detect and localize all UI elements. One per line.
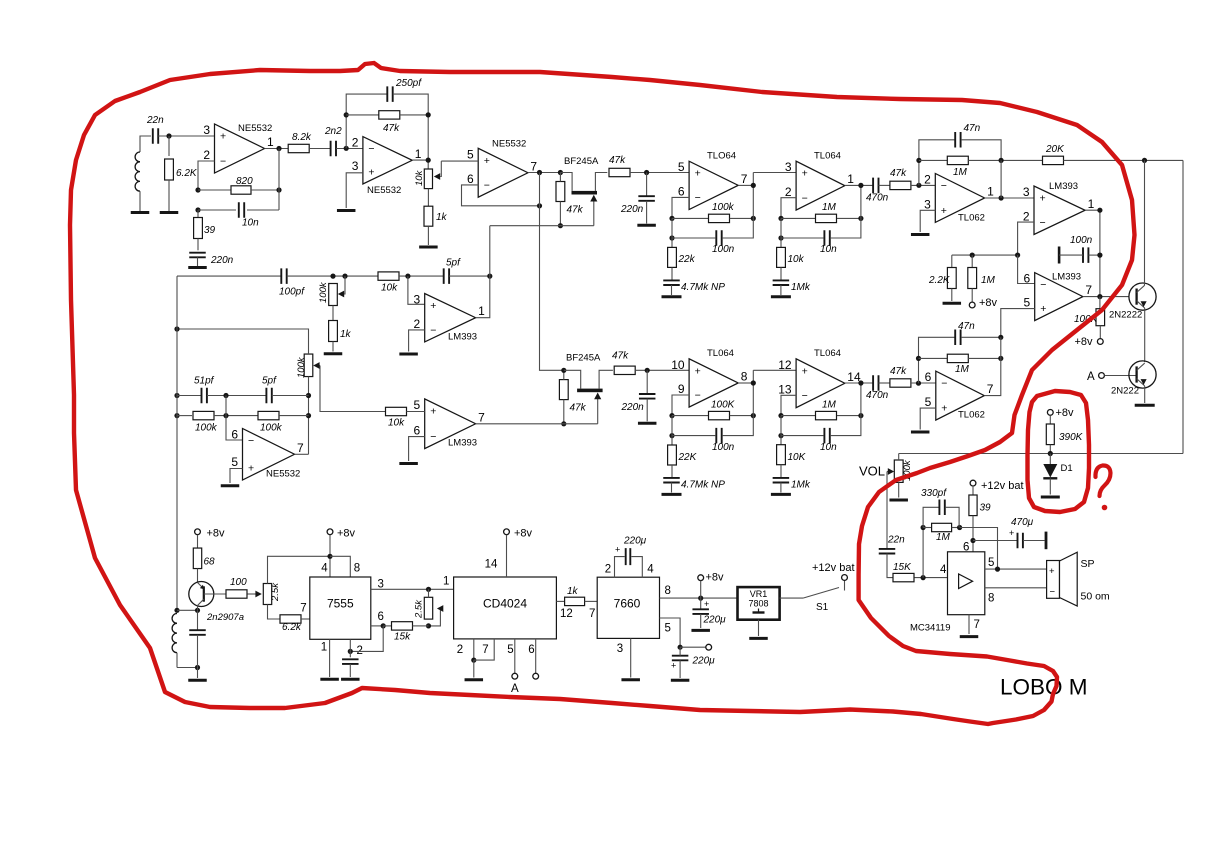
- svg-text:6: 6: [467, 172, 474, 186]
- svg-text:5pf: 5pf: [262, 376, 277, 387]
- svg-text:1M: 1M: [981, 275, 996, 286]
- junction U5 output: [858, 183, 863, 188]
- junction TL062#2 input: [916, 381, 921, 386]
- svg-text:50 om: 50 om: [1081, 591, 1110, 603]
- svg-text:1: 1: [415, 147, 422, 161]
- wire 220n to ground (bottom): [646, 399, 648, 422]
- terminal +8v (Q3): [195, 528, 225, 540]
- resistor 1M (bias): [968, 268, 996, 289]
- ground (D1): [1041, 496, 1060, 499]
- svg-text:−: −: [941, 378, 947, 390]
- wire pot2 wiper down: [320, 366, 386, 412]
- capacitor 1Mk: [773, 280, 811, 293]
- junction 51pf left: [174, 393, 179, 398]
- svg-text:LM393: LM393: [448, 332, 477, 343]
- wire U4 output: [738, 184, 753, 186]
- wire 100pf to 10k: [287, 275, 378, 277]
- svg-text:7: 7: [741, 172, 748, 186]
- svg-text:15k: 15k: [394, 632, 411, 643]
- junction pot1 wiper tap: [342, 274, 347, 279]
- svg-text:−: −: [248, 435, 254, 447]
- svg-text:−: −: [368, 143, 374, 155]
- svg-text:TL064: TL064: [814, 348, 841, 359]
- svg-text:6: 6: [231, 428, 238, 442]
- svg-text:MC34119: MC34119: [910, 623, 951, 634]
- junction U9 100n left: [669, 433, 674, 438]
- inductor TX coil L2: [172, 614, 177, 668]
- wire U11 pin5 to ground: [920, 408, 936, 429]
- svg-text:6: 6: [378, 611, 384, 623]
- wire output feedback vertical: [278, 149, 280, 211]
- resistor 47k (Q4 drain): [556, 173, 584, 226]
- wire 22K top: [671, 436, 673, 445]
- capacitor 22n (audio): [879, 535, 905, 554]
- svg-text:NE5532: NE5532: [266, 469, 300, 480]
- wire 7555 pin2 down: [349, 639, 351, 657]
- svg-text:2N2222: 2N2222: [1109, 310, 1142, 321]
- wire 6.2K to ground: [168, 180, 170, 211]
- resistor 1M (TL062#2): [947, 354, 969, 375]
- svg-text:51pf: 51pf: [194, 376, 215, 387]
- junction U1 output: [276, 146, 281, 151]
- resistor 1k: [424, 206, 448, 226]
- wire 470n to 47k (bottom): [879, 382, 890, 384]
- wire 7555 pin1 down: [329, 639, 331, 677]
- svg-text:6.2k: 6.2k: [282, 622, 302, 633]
- wire junction to 6.2K: [168, 136, 170, 156]
- junction right rail top: [1142, 158, 1147, 163]
- wire +12 to 39: [972, 486, 974, 495]
- wire 1M row left (MC): [923, 527, 932, 529]
- wire 7660 pin2 bracket: [615, 557, 625, 578]
- wire U6 pin3 to ground: [920, 210, 935, 232]
- svg-text:7: 7: [478, 410, 485, 424]
- svg-text:2: 2: [605, 564, 611, 576]
- junction Q5 gate row: [561, 421, 566, 426]
- svg-text:100pf: 100pf: [279, 287, 305, 298]
- capacitor 470n (top chain): [866, 178, 889, 204]
- transistor Q4 BF245A (top JFET): [560, 156, 607, 226]
- wire 100n row right (U9): [723, 370, 754, 435]
- svg-text:47k: 47k: [570, 403, 587, 414]
- wire 15k to pot4: [413, 625, 429, 627]
- junction U3 out A: [537, 170, 542, 175]
- ground (coil): [131, 211, 150, 214]
- svg-text:2n2: 2n2: [324, 126, 342, 137]
- capacitor 220n (bottom chain): [621, 394, 656, 413]
- wire 10K to 1Mk (bottom): [780, 465, 782, 478]
- junction between 51pf/5pf: [223, 393, 228, 398]
- junction pin5 cap node: [678, 645, 683, 650]
- ground (U2 pin3): [337, 209, 356, 212]
- label pin7 MC34119: [974, 619, 980, 631]
- svg-text:3: 3: [785, 160, 792, 174]
- junction U5 fb left: [778, 216, 783, 221]
- junction U5 fb right: [858, 216, 863, 221]
- junction U6 output: [999, 195, 1004, 200]
- wire U11 output: [984, 337, 1001, 395]
- svg-text:5: 5: [231, 455, 238, 469]
- resistor 1M (MC34119 fb): [932, 523, 952, 543]
- wire U2 output: [412, 159, 428, 161]
- svg-text:250pf: 250pf: [395, 78, 422, 89]
- svg-text:8: 8: [988, 593, 994, 605]
- wire 100K to +8v: [1099, 326, 1101, 339]
- svg-text:10: 10: [671, 358, 685, 372]
- wire 22k top: [671, 238, 673, 247]
- svg-text:+: +: [368, 167, 374, 179]
- op-amp U5 TL064 pins 3/2/1: [785, 151, 854, 211]
- wire bias to U8 pin6: [1018, 255, 1035, 283]
- resistor 22K: [668, 445, 698, 465]
- svg-text:100K: 100K: [711, 400, 736, 411]
- svg-text:13: 13: [778, 383, 792, 397]
- svg-text:100: 100: [230, 577, 247, 588]
- resistor 1M (U10 fb): [816, 400, 837, 420]
- wire 4.7Mk to ground (bottom): [671, 483, 673, 493]
- terminal +12v bat (39): [970, 480, 1023, 492]
- junction pin2 node: [348, 649, 353, 654]
- wire 330pf bracket left: [923, 507, 939, 527]
- svg-text:100k: 100k: [260, 423, 283, 434]
- svg-text:+: +: [802, 365, 808, 377]
- wire VR1 out: [780, 597, 803, 599]
- wire 22k to 4.7Mk: [671, 267, 673, 280]
- wire 1M row left (U10): [781, 415, 815, 417]
- wire pin6 to pin2: [350, 626, 383, 652]
- wire fb bracket vertical (TL062#2): [919, 337, 955, 383]
- junction U3 out B: [558, 170, 563, 175]
- junction 47k left: [344, 112, 349, 117]
- ground (1k): [419, 246, 438, 249]
- svg-text:12: 12: [778, 358, 792, 372]
- potentiometer 100k (mid): [296, 354, 320, 378]
- svg-text:+: +: [1009, 528, 1014, 538]
- resistor 68: [193, 548, 215, 569]
- svg-text:A: A: [511, 683, 519, 695]
- wire U10 pin13 loop: [781, 395, 796, 415]
- capacitor 220u (7660 top): [615, 536, 647, 566]
- wire 7660 pin8 out: [660, 597, 738, 599]
- svg-text:−: −: [220, 156, 226, 168]
- svg-text:6: 6: [678, 185, 685, 199]
- wire 47k to TL062#2 pin6: [911, 382, 936, 384]
- wire 10k to U13 pin5: [407, 411, 425, 413]
- wire fb bracket vertical (TL062#1): [919, 140, 955, 186]
- wire 1M bracket vertical: [922, 528, 924, 578]
- svg-text:LM393: LM393: [448, 438, 477, 449]
- wire U8 pin5 loop: [1001, 309, 1035, 338]
- resistor 47k (to TL062 #1): [890, 168, 911, 190]
- wire U14 pin5 to ground: [230, 469, 243, 484]
- wire pot2 to U14 node: [308, 377, 310, 455]
- svg-text:+8v: +8v: [337, 528, 356, 540]
- terminal +8v (7660 out): [698, 572, 724, 584]
- capacitor 100n (comparator): [1059, 235, 1100, 264]
- wire 2.2K top: [951, 255, 953, 268]
- wire CD4024 pin7 bracket: [474, 639, 494, 660]
- wire 47n right (TL062#2): [961, 336, 1001, 338]
- svg-text:68: 68: [204, 557, 216, 568]
- wire 220u to ground: [700, 614, 702, 628]
- wire 47n right: [961, 140, 1001, 161]
- wire U5 output: [845, 184, 873, 186]
- capacitor 22n: [146, 115, 164, 144]
- svg-text:22K: 22K: [678, 452, 698, 463]
- wire 5pf to fb node: [449, 275, 490, 277]
- wire 1k to 7660 pin7: [585, 600, 598, 602]
- wire U3 output: [528, 172, 561, 174]
- svg-text:−: −: [802, 193, 808, 205]
- wire to 220n (bottom): [646, 370, 648, 394]
- svg-text:2: 2: [352, 136, 359, 150]
- capacitor 470n (bottom chain): [866, 375, 889, 401]
- svg-text:1: 1: [443, 576, 449, 588]
- capacitor 470u: [1009, 517, 1046, 549]
- wire left rail vertical: [176, 276, 178, 610]
- wire 47k row left: [346, 114, 379, 116]
- wire 39 to 220n: [197, 239, 199, 251]
- op-amp U12 LM393 pins 3/2/1: [414, 293, 486, 343]
- svg-text:1: 1: [478, 304, 485, 318]
- label pin6 MC34119: [963, 542, 969, 554]
- wire 10k to 1Mk: [780, 267, 782, 280]
- capacitor 100n (U9): [712, 428, 735, 453]
- wire 22n to U1 pin3: [158, 135, 214, 137]
- svg-text:VR1: VR1: [750, 589, 768, 599]
- wire U6 fb vertical: [1000, 160, 1002, 198]
- svg-text:47k: 47k: [890, 366, 907, 377]
- junction U9 fb left: [669, 413, 674, 418]
- junction U4 fb right: [751, 216, 756, 221]
- wire 1k to ground: [427, 226, 429, 245]
- junction 220n tap (bottom chain): [645, 368, 650, 373]
- svg-text:A: A: [1087, 371, 1095, 383]
- wire 20K to right rail: [1063, 159, 1183, 161]
- potentiometer 2.5k (divider): [414, 597, 444, 626]
- capacitor 100n (U4): [712, 230, 735, 255]
- junction 47n right (TL062#2): [998, 335, 1003, 340]
- ground (2.2K): [943, 302, 962, 305]
- junction Q4 gate row: [558, 223, 563, 228]
- junction U8 output: [1097, 294, 1102, 299]
- ground (7555 pin2 cap): [341, 678, 360, 681]
- svg-text:+: +: [695, 365, 701, 377]
- wire bias row 2.2K/1M: [952, 254, 1018, 256]
- svg-text:220μ: 220μ: [703, 615, 727, 626]
- svg-text:6: 6: [1024, 272, 1031, 286]
- wire 22n to 15K: [887, 554, 893, 578]
- svg-text:12: 12: [560, 608, 573, 620]
- wire U2 pin3 to ground: [346, 173, 363, 208]
- junction U10 output: [858, 380, 863, 385]
- ground (220n top chain): [637, 224, 656, 227]
- wire 15K to pin4: [915, 577, 948, 579]
- junction 1M tap: [921, 575, 926, 580]
- svg-text:10k: 10k: [381, 283, 398, 294]
- ground (CD4024): [465, 678, 484, 681]
- wire 7660 pin3 down: [630, 638, 632, 677]
- svg-text:6: 6: [925, 370, 932, 384]
- svg-text:5: 5: [414, 398, 421, 412]
- junction pin6/470u: [970, 538, 975, 543]
- svg-text:2: 2: [457, 644, 463, 656]
- junction feedback/10n: [195, 207, 200, 212]
- junction 22n/6.2K: [166, 133, 171, 138]
- resistor 15K: [893, 562, 914, 582]
- wire 220n to ground: [197, 257, 199, 266]
- wire 10n row right (U10): [831, 383, 861, 436]
- ground (1Mk): [771, 295, 791, 298]
- junction U3 feedback: [537, 203, 542, 208]
- svg-text:+8v: +8v: [706, 572, 725, 584]
- svg-text:+: +: [1040, 303, 1046, 315]
- wire 10n row left: [198, 209, 236, 211]
- svg-text:5: 5: [1024, 296, 1031, 310]
- svg-text:+12v bat: +12v bat: [812, 562, 855, 574]
- switch S1: [803, 580, 845, 613]
- junction U4 output: [751, 183, 756, 188]
- wire +8v to 390K: [1049, 415, 1051, 424]
- wire U12 pin3: [408, 276, 425, 304]
- wire U4 pin6 loop: [672, 197, 689, 218]
- wire 10n row right: [831, 185, 861, 238]
- svg-text:20K: 20K: [1045, 144, 1065, 155]
- ground (Q2): [1135, 404, 1155, 407]
- wire coil top link: [177, 609, 198, 611]
- wire 51pf to 5pf: [207, 395, 266, 397]
- wire left rail to pot2: [177, 329, 309, 354]
- svg-text:3: 3: [1023, 185, 1030, 199]
- svg-text:15K: 15K: [893, 562, 912, 573]
- wire U9 out to U10 pin12: [753, 369, 796, 371]
- svg-text:+8v: +8v: [1056, 407, 1075, 419]
- svg-text:TLO64: TLO64: [707, 151, 736, 162]
- wire U14 output: [295, 453, 309, 455]
- svg-text:+8v: +8v: [1075, 336, 1094, 348]
- potentiometer 100k (osc): [318, 276, 345, 305]
- IC U15 MC34119: [910, 552, 985, 634]
- wire pot to 1k: [427, 189, 429, 207]
- junction pot1 top: [330, 274, 335, 279]
- svg-text:2.5k: 2.5k: [414, 599, 425, 619]
- svg-text:470μ: 470μ: [1011, 517, 1034, 528]
- wire 1M row left: [781, 217, 815, 219]
- wire MC pin5 to speaker: [985, 568, 1047, 570]
- ground (6.2K): [160, 211, 179, 214]
- capacitor 2n2: [324, 126, 342, 156]
- op-amp U13 LM393 pins 5/6/7: [414, 398, 486, 449]
- wire 10k to 5pf: [399, 275, 444, 277]
- svg-text:BF245A: BF245A: [564, 156, 599, 167]
- resistor 1M (U5 fb): [816, 202, 837, 223]
- wire 47k to U9 pin10: [635, 369, 689, 371]
- op-amp U14 NE5532 pins 6/5/7: [231, 428, 304, 481]
- wire pin2 to ground: [473, 660, 475, 677]
- svg-text:100k: 100k: [296, 356, 307, 378]
- svg-text:7: 7: [482, 644, 488, 656]
- junction 220n tap (top chain): [644, 170, 649, 175]
- svg-text:10k: 10k: [788, 254, 805, 265]
- red freehand outline (main loop): [70, 63, 1135, 724]
- wire U7 output: [1085, 210, 1100, 296]
- ground (VR1): [749, 637, 768, 640]
- wire bracket to pin8: [330, 556, 350, 577]
- terminal A (Q2 base): [1087, 371, 1104, 383]
- wire 2.2K to ground: [951, 289, 953, 302]
- wire coil bottom link: [177, 667, 198, 669]
- wire U12 output loop: [476, 226, 490, 318]
- resistor 6.2K: [165, 159, 198, 180]
- op-amp U9 TL064 pins 10/9/8: [671, 348, 747, 407]
- wire MC pin7 down: [968, 615, 970, 634]
- ground (osc 1k): [324, 352, 343, 355]
- capacitor 10n (U5): [820, 230, 837, 255]
- label pin5 MC34119: [988, 557, 994, 569]
- capacitor 220u (8v filter): [692, 599, 726, 626]
- svg-text:8: 8: [665, 585, 671, 597]
- svg-text:+: +: [1049, 566, 1055, 577]
- wire 10K top: [780, 436, 782, 445]
- svg-text:−: −: [941, 180, 947, 192]
- capacitor 4.7Mk NP (U9): [663, 478, 725, 491]
- resistor 47k (to TL062 #2): [890, 366, 911, 387]
- svg-text:3: 3: [352, 159, 359, 173]
- resistor 8.2k: [288, 132, 312, 153]
- resistor 100K (U9 fb): [709, 400, 736, 420]
- resistor 100: [226, 577, 247, 598]
- svg-text:47k: 47k: [383, 123, 400, 134]
- svg-text:TL062: TL062: [958, 213, 985, 224]
- wire 7660 pin5: [660, 618, 681, 647]
- wire 7555 pin3 to CD4024 pin1: [371, 588, 454, 590]
- wire 47k to TLO64 pin5: [630, 172, 689, 174]
- wire U13 output to gate: [476, 423, 598, 425]
- IC 7660: [597, 564, 671, 656]
- wire cap to bottom junction: [197, 635, 199, 668]
- wire 8.2k to 2n2: [309, 148, 330, 150]
- label pin4 MC34119: [940, 564, 947, 576]
- svg-text:6: 6: [528, 644, 534, 656]
- svg-text:2n2907a: 2n2907a: [206, 612, 244, 623]
- svg-text:+: +: [941, 205, 947, 217]
- svg-text:820: 820: [236, 176, 253, 187]
- svg-text:7: 7: [589, 608, 595, 620]
- wire U8 output to Q1 base: [1083, 296, 1129, 298]
- svg-text:8: 8: [354, 563, 360, 575]
- transistor Q3 2n2907a: [189, 582, 244, 624]
- wire +8v circle lead: [700, 581, 702, 599]
- svg-text:2: 2: [203, 148, 210, 162]
- resistor 100k (U14 a): [193, 411, 218, 433]
- wire U13 pin6 to ground: [409, 437, 425, 461]
- junction coil/cap bottom: [195, 665, 200, 670]
- potentiometer VOL 100k: [859, 459, 913, 482]
- wire 10n row left (U10): [781, 416, 823, 436]
- wire 1M row right (U10): [837, 415, 861, 417]
- resistor 1k (to 7660): [565, 586, 585, 606]
- junction pot4 bottom: [426, 623, 431, 628]
- capacitor 220n: [189, 253, 233, 266]
- potentiometer 10k: [414, 161, 441, 189]
- junction pot4 top: [426, 587, 431, 592]
- wire junction to 39: [197, 210, 199, 218]
- ground (U14): [221, 484, 240, 487]
- junction 1M right (MC): [957, 525, 962, 530]
- wire 2n2 to U2 pin2: [336, 148, 363, 150]
- resistor 47k (Q4 source): [609, 155, 630, 177]
- wire right rail vertical: [1182, 160, 1184, 453]
